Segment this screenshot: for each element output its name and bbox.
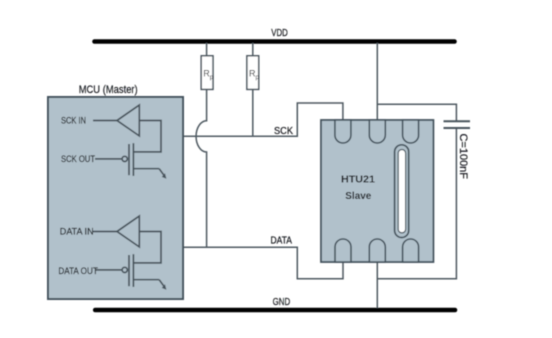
svg-text:SCK IN: SCK IN — [61, 116, 86, 126]
svg-text:MCU (Master): MCU (Master) — [79, 84, 138, 96]
svg-text:Slave: Slave — [345, 190, 371, 202]
svg-text:VDD: VDD — [271, 28, 288, 39]
svg-text:SCK: SCK — [274, 126, 293, 137]
svg-text:SCK OUT: SCK OUT — [61, 154, 95, 164]
svg-text:DATA: DATA — [271, 235, 293, 246]
svg-text:GND: GND — [273, 297, 291, 308]
svg-text:DATA OUT: DATA OUT — [58, 266, 98, 276]
svg-text:HTU21: HTU21 — [341, 174, 375, 186]
svg-text:C=100nF: C=100nF — [457, 134, 469, 180]
svg-text:DATA IN: DATA IN — [60, 227, 94, 237]
